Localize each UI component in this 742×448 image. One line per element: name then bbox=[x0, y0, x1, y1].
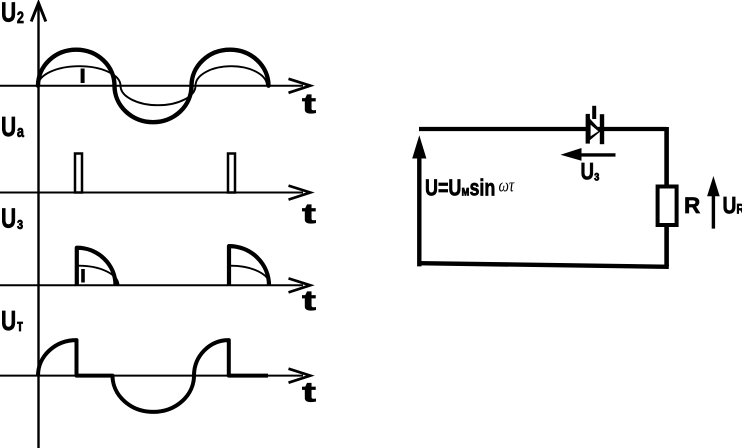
plot 3 chopped hump 2 thin inner curve bbox=[231, 266, 271, 286]
source voltage arrowhead bbox=[412, 135, 426, 158]
svg-text:t: t bbox=[302, 88, 316, 119]
vertical axis arrowhead bbox=[31, 3, 46, 22]
label Uy (plot 2 y-axis) bbox=[1, 112, 25, 143]
label Uz (circuit) bbox=[581, 158, 600, 185]
gate pulse 2 bbox=[228, 154, 235, 193]
circuit: bottom wire bbox=[419, 263, 669, 267]
svg-text:UR: UR bbox=[723, 191, 742, 219]
svg-text:R: R bbox=[684, 193, 700, 218]
plot 1 thick sine wave U2 bbox=[38, 50, 269, 123]
plot 3 chopped hump 1 thick bbox=[77, 248, 116, 286]
plot 1 axis arrowhead bbox=[289, 79, 311, 93]
thyristor gate stub bbox=[592, 106, 596, 119]
thyristor cathode bar bbox=[600, 114, 604, 144]
thyristor left bar bbox=[586, 114, 590, 144]
svg-text:t: t bbox=[302, 198, 316, 229]
plot 3 chopped hump 1 thin inner curve bbox=[79, 266, 119, 286]
plot 1 horizontal axis (t) bbox=[0, 85, 303, 87]
plot 3 horizontal axis (t) bbox=[0, 284, 303, 286]
plot 3 chopped hump 2 thick bbox=[229, 246, 269, 285]
circuit: right wire upper bbox=[664, 127, 669, 186]
svg-text:U=Uмsinωτ: U=Uмsinωτ bbox=[425, 175, 515, 201]
plot 2 t label bbox=[302, 198, 316, 229]
svg-text:Uз: Uз bbox=[1, 204, 23, 235]
plot 2 horizontal axis (t) bbox=[0, 192, 303, 194]
svg-text:Ua: Ua bbox=[1, 112, 25, 143]
plot 4 axis arrowhead bbox=[289, 369, 311, 383]
source label U=Um sin wt bbox=[425, 175, 515, 201]
label UT (plot 4 y-axis) bbox=[1, 306, 23, 337]
svg-text:Uт: Uт bbox=[1, 306, 23, 337]
plot 2 axis arrowhead bbox=[289, 186, 311, 200]
label U2 (plot 1 y-axis) bbox=[1, 0, 24, 28]
plot 1 firing-angle tick bbox=[81, 69, 85, 84]
svg-text:U2: U2 bbox=[1, 0, 24, 28]
plot 3 t label bbox=[302, 285, 316, 316]
plot 4 t label bbox=[302, 376, 316, 407]
UR arrow bbox=[712, 194, 715, 229]
UR arrowhead bbox=[707, 176, 720, 196]
label UR bbox=[723, 191, 742, 219]
circuit: right wire lower bbox=[664, 225, 669, 267]
Uz arrow (across thyristor) bbox=[580, 153, 616, 156]
plot 1 thin sine wave bbox=[38, 66, 267, 105]
vertical axis (shared U axis) bbox=[37, 3, 39, 448]
plot 1 t label bbox=[302, 88, 316, 119]
circuit: left wire (source branch) bbox=[417, 152, 421, 266]
Uz arrowhead bbox=[561, 148, 582, 161]
svg-text:t: t bbox=[302, 285, 316, 316]
svg-text:t: t bbox=[302, 376, 316, 407]
resistor R body bbox=[658, 187, 677, 226]
thyristor triangle white wedge bbox=[591, 125, 599, 136]
gate pulse 1 bbox=[75, 154, 82, 193]
circuit: top wire bbox=[419, 127, 667, 131]
plot 4 horizontal axis (t) bbox=[0, 375, 303, 377]
plot 3 axis arrowhead bbox=[289, 278, 311, 292]
plot 4 thyristor voltage waveform bbox=[38, 340, 268, 412]
thyristor V1 anode triangle (filled) bbox=[586, 114, 601, 143]
label Uz (plot 3 y-axis) bbox=[1, 204, 23, 235]
plot 3 firing tick bbox=[81, 269, 85, 283]
svg-text:Uз: Uз bbox=[581, 158, 600, 185]
